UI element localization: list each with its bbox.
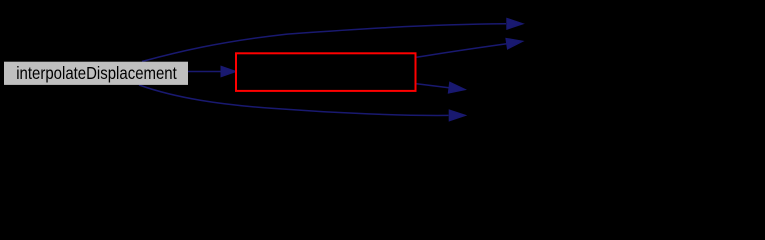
wire: edge from interpolateDisplacement to top-right hidden node: [142, 24, 506, 62]
svg-text:interpolateDisplacement: interpolateDisplacement: [16, 63, 177, 84]
arrowhead of bottom edge: [449, 110, 466, 121]
arrowhead into red node: [221, 66, 236, 77]
arrowhead of top edge: [507, 18, 524, 29]
arrowhead: [506, 38, 523, 49]
wire: edge from red node to second top-right hidden node: [417, 44, 507, 58]
wire: straight edge from interpolateDisplacement to red node: [188, 71, 222, 73]
wire: edge from red node to mid-right hidden node: [417, 84, 450, 88]
node: interpolateDisplacement (gray box): [4, 62, 188, 85]
node: current function (red outlined box, hidden label): [236, 53, 416, 91]
arrowhead: [448, 82, 465, 93]
wire: bottom edge from interpolateDisplacement to lower-right hidden node: [139, 85, 449, 115]
